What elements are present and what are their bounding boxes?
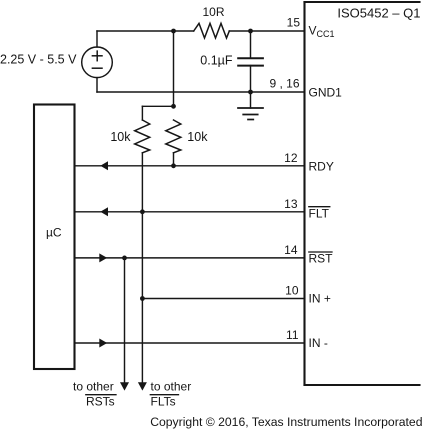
node dot at (173.5,106.3) bbox=[171, 104, 176, 109]
svg-text:0.1µF: 0.1µF bbox=[200, 54, 233, 68]
node dot at (142.4,211.8) bbox=[140, 209, 145, 214]
arrow IN- from uC bbox=[99, 339, 107, 348]
voltage source V1 bbox=[82, 47, 113, 78]
IC U1 ISO5452-Q1 box bbox=[305, 2, 420, 385]
wire V+ lead bbox=[96, 31, 98, 47]
svg-text:RST: RST bbox=[309, 252, 334, 266]
microcontroller uC box bbox=[34, 105, 75, 370]
wire resistor top connector bbox=[142, 105, 173, 107]
resistor R 10k right bbox=[166, 120, 181, 153]
svg-text:9 , 16: 9 , 16 bbox=[269, 76, 299, 90]
wire left resistor top lead bbox=[141, 106, 143, 120]
svg-text:2.25 V - 5.5 V: 2.25 V - 5.5 V bbox=[0, 53, 77, 67]
arrow RDY into uC bbox=[100, 161, 108, 170]
wire RST drop line bbox=[124, 258, 126, 384]
wire FLT drop line from left resistor bbox=[141, 153, 143, 384]
svg-text:15: 15 bbox=[287, 15, 301, 29]
svg-text:FLTs: FLTs bbox=[151, 395, 176, 409]
wire gnd rail to GND1 bbox=[97, 91, 305, 93]
svg-text:VCC1: VCC1 bbox=[309, 24, 335, 40]
wire top rail left segment bbox=[97, 30, 194, 32]
svg-text:µC: µC bbox=[46, 226, 62, 240]
node dot at (124.5,257.9) bbox=[122, 256, 127, 261]
wire IN+ row bbox=[142, 298, 304, 300]
node dot at (173.5,31) bbox=[171, 29, 176, 34]
svg-text:11: 11 bbox=[286, 328, 299, 342]
svg-text:to other: to other bbox=[151, 379, 192, 393]
wire vcc drop line x=173.5 bbox=[173, 31, 175, 106]
svg-text:12: 12 bbox=[284, 151, 298, 165]
svg-text:RDY: RDY bbox=[309, 159, 334, 173]
svg-text:10R: 10R bbox=[203, 5, 225, 19]
node dot at (250.5,92) bbox=[248, 90, 253, 95]
resistor R 10k left bbox=[135, 120, 150, 153]
svg-text:Copyright © 2016, Texas Instru: Copyright © 2016, Texas Instruments Inco… bbox=[150, 415, 422, 429]
svg-text:RSTs: RSTs bbox=[86, 395, 115, 409]
wire FLT row bbox=[75, 211, 305, 213]
svg-text:IN -: IN - bbox=[309, 336, 328, 350]
arrow down to other FLTs bbox=[138, 382, 147, 390]
svg-text:to other: to other bbox=[73, 379, 114, 393]
wire top rail right segment to pin 15 bbox=[229, 30, 304, 32]
svg-text:ISO5452 – Q1: ISO5452 – Q1 bbox=[337, 6, 420, 21]
svg-text:FLT: FLT bbox=[309, 206, 330, 220]
wire V- lead bbox=[96, 78, 98, 92]
svg-text:14: 14 bbox=[284, 243, 298, 257]
wire RDY row bbox=[75, 165, 305, 167]
svg-text:10k: 10k bbox=[187, 130, 208, 144]
node dot at (173.5,165.8) bbox=[171, 163, 176, 168]
node dot at (250.5,31) bbox=[248, 29, 253, 34]
ground bbox=[238, 92, 263, 120]
svg-text:10k: 10k bbox=[110, 130, 131, 144]
svg-text:GND1: GND1 bbox=[309, 86, 343, 100]
svg-text:10: 10 bbox=[285, 284, 299, 298]
svg-text:13: 13 bbox=[284, 197, 298, 211]
arrow RST from uC bbox=[99, 253, 107, 262]
svg-text:IN +: IN + bbox=[309, 292, 331, 306]
resistor R 10R bbox=[194, 23, 230, 38]
capacitor C1 0.1uF bbox=[238, 31, 263, 92]
node dot at (142.4,298.5) bbox=[140, 296, 145, 301]
arrow FLT into uC bbox=[100, 207, 108, 216]
arrow down to other RSTs bbox=[120, 382, 129, 390]
wire RST row bbox=[75, 257, 305, 259]
wire right resistor bottom lead to RDY bbox=[173, 153, 175, 166]
wire IN- row bbox=[75, 342, 305, 344]
